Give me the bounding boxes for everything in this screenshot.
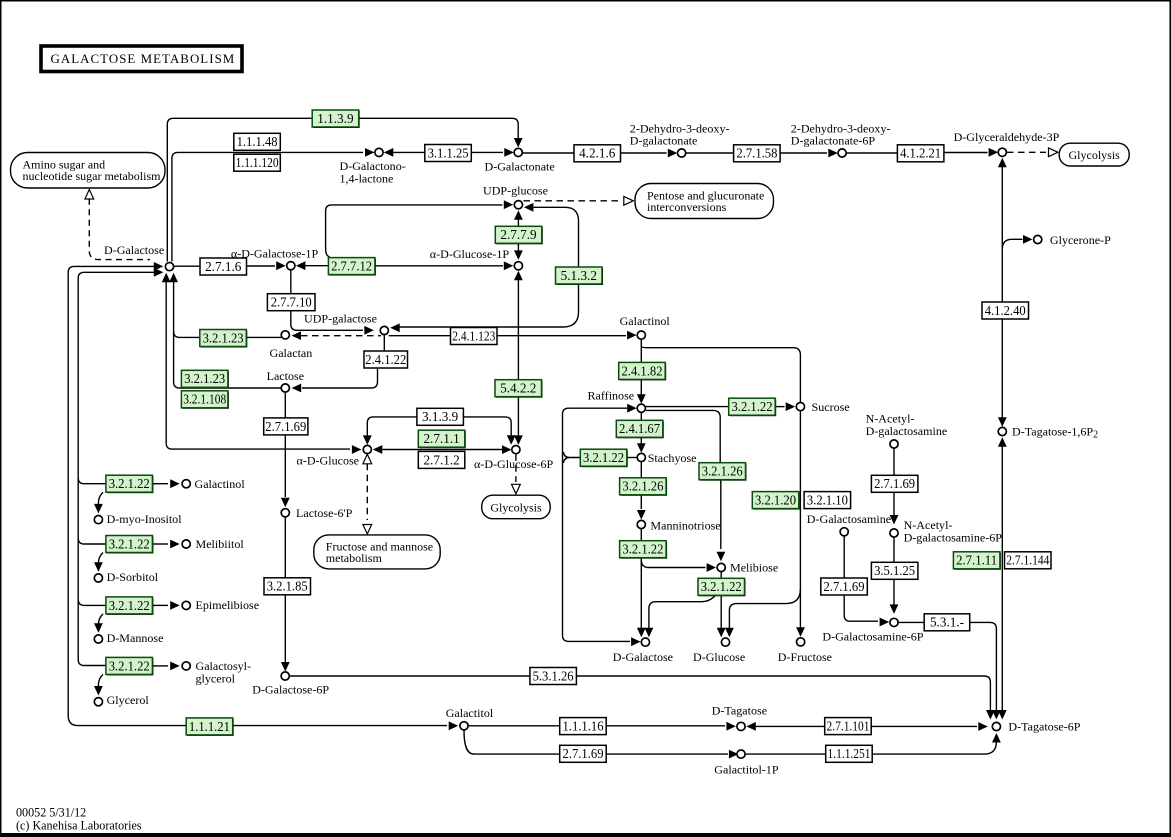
svg-text:4.2.1.6: 4.2.1.6 — [579, 146, 616, 161]
node N-Acetyl-D-galactosamine — [890, 440, 898, 448]
node Raffinose — [637, 404, 645, 412]
wire Lactose to Lactose-6P via 2.7.1.69 — [284, 392, 286, 418]
svg-text:3.2.1.22: 3.2.1.22 — [732, 399, 773, 414]
wire alpha-D-Glucose to alpha-D-Glucose-6P via 2.7.1.1/2.7.1.2 — [373, 445, 383, 454]
node D-Glucose — [721, 638, 729, 646]
node N-Acetyl-D-galactosamine-6P — [890, 529, 898, 537]
enzyme 3.2.1.10 — [804, 492, 851, 509]
node D-Fructose — [797, 638, 805, 646]
node Lactose-6P — [281, 509, 289, 517]
svg-text:Glycolysis: Glycolysis — [490, 500, 542, 514]
svg-text:D-Galactonate: D-Galactonate — [485, 160, 555, 174]
svg-text:1.1.1.16: 1.1.1.16 — [563, 719, 604, 734]
svg-text:Lactose: Lactose — [267, 369, 304, 383]
svg-text:Lactose-6'P: Lactose-6'P — [296, 506, 353, 520]
svg-text:2.7.1.69: 2.7.1.69 — [563, 746, 604, 761]
enzyme 3.5.1.25 — [871, 562, 918, 579]
enzyme 2.7.1.69 — [871, 475, 918, 492]
wire Sucrose to D-Fructose — [799, 411, 801, 629]
enzyme 3.2.1.23 (highlighted) — [182, 371, 229, 388]
wire Galactitol to D-Tagatose via 1.1.1.16 — [468, 725, 559, 727]
wire branch to 3.2.1.23 Galactan — [174, 331, 200, 337]
wire Lactose to D-Galactose via 3.2.1.23 — [169, 273, 178, 283]
wire dashed alpha-D-Glucose to fructose-mannose — [363, 454, 372, 464]
wire Galactitol/1.1.1.21 loop into D-Galactose — [154, 262, 164, 271]
wire UDP-galactose to Lactose via 2.4.1.22 — [383, 335, 385, 351]
svg-text:2.7.1.69: 2.7.1.69 — [874, 476, 915, 491]
svg-text:1.1.1.120: 1.1.1.120 — [236, 155, 279, 170]
svg-text:1,4-lactone: 1,4-lactone — [340, 171, 394, 185]
svg-text:5.4.2.2: 5.4.2.2 — [500, 381, 536, 396]
wire branch to Melibiose — [641, 560, 705, 568]
node Galactinol mid — [637, 331, 645, 339]
svg-text:2.7.7.9: 2.7.7.9 — [500, 227, 537, 242]
node D-Galactose — [165, 263, 173, 271]
enzyme 5.3.1.26 — [530, 668, 577, 685]
enzyme 2.7.7.9 (highlighted) — [496, 227, 543, 244]
svg-text:D-Tagatose: D-Tagatose — [712, 704, 767, 718]
svg-text:Manninotriose: Manninotriose — [650, 519, 720, 533]
wire 3.2.1.22 row2 drop — [98, 553, 103, 567]
enzyme 2.7.1.144 — [1005, 552, 1052, 569]
svg-text:D-Glyceraldehyde-3P: D-Glyceraldehyde-3P — [954, 130, 1060, 144]
svg-text:Glycerol: Glycerol — [107, 693, 150, 707]
wire Stachyose to bracket via 3.2.1.22 — [627, 457, 637, 459]
wire Raffinose to Sucrose via 3.2.1.22 — [646, 406, 729, 408]
wire 3.2.1.22 row4 to product — [152, 665, 168, 667]
enzyme 3.2.1.22 (highlighted) — [107, 598, 153, 615]
enzyme 2.7.1.101 — [825, 718, 872, 735]
svg-text:3.2.1.22: 3.2.1.22 — [583, 450, 624, 465]
svg-text:2.7.1.11: 2.7.1.11 — [956, 553, 997, 568]
svg-text:3.2.1.22: 3.2.1.22 — [109, 658, 150, 673]
svg-text:α-D-Galactose-1P: α-D-Galactose-1P — [231, 246, 319, 260]
enzyme 3.1.3.9 — [417, 408, 464, 425]
svg-text:(c) Kanehisa Laboratories: (c) Kanehisa Laboratories — [16, 818, 142, 832]
svg-text:3.2.1.108: 3.2.1.108 — [183, 392, 226, 407]
enzyme 3.2.1.22 (highlighted) — [107, 476, 153, 493]
enzyme 2.7.7.10 — [267, 294, 315, 311]
svg-text:D-galactonate: D-galactonate — [630, 133, 698, 147]
svg-text:3.2.1.26: 3.2.1.26 — [702, 464, 743, 479]
wire left bracket Raffinose to D-Galactose — [627, 404, 637, 413]
svg-text:1.1.3.9: 1.1.3.9 — [317, 111, 354, 126]
node D-Tagatose — [737, 722, 745, 730]
node D-Mannose — [94, 635, 102, 643]
svg-text:3.1.3.9: 3.1.3.9 — [422, 409, 459, 424]
node D-Galactosamine-6P — [890, 618, 898, 626]
wire branch Melibiose line to D-Galactose — [649, 594, 717, 630]
wire 3.2.1.22 row1 drop — [98, 492, 103, 507]
svg-text:1.1.1.251: 1.1.1.251 — [828, 746, 871, 761]
wire lactone to 3.1.1.25 to D-Galactonate — [384, 148, 394, 157]
pathway link Fructose and mannose metabolism — [314, 535, 440, 569]
enzyme 5.1.3.2 (highlighted) — [557, 268, 604, 285]
enzyme 3.2.1.85 — [264, 578, 311, 595]
node Galactosyl-glycerol — [182, 662, 190, 670]
svg-text:2.7.7.10: 2.7.7.10 — [271, 295, 312, 310]
svg-text:D-Mannose: D-Mannose — [107, 631, 164, 645]
svg-text:Epimelibiose: Epimelibiose — [196, 598, 260, 612]
wire dashed D-Galactose to Amino sugar metabolism — [85, 190, 94, 200]
svg-text:2.7.1.2: 2.7.1.2 — [423, 452, 459, 467]
svg-text:D-Fructose: D-Fructose — [778, 650, 832, 664]
wire 4.1.2.40 vertical D-Tagatose-1,6P2 to D-Glyceraldehyde-3P — [998, 158, 1007, 168]
svg-text:2.4.1.82: 2.4.1.82 — [622, 363, 663, 378]
wire dashed alpha-D-Glucose-6P to Glycolysis — [515, 454, 517, 482]
node 2-dehydro-3-deoxy-D-galactonate-6P — [838, 149, 846, 157]
node Melibiose — [717, 563, 725, 571]
svg-text:2.4.1.123: 2.4.1.123 — [452, 328, 495, 343]
svg-text:5.3.1.26: 5.3.1.26 — [533, 668, 574, 683]
enzyme 2.4.1.22 — [364, 351, 408, 368]
wire 3.1.3.9 loop — [363, 435, 372, 445]
svg-text:Raffinose: Raffinose — [588, 389, 635, 403]
svg-text:3.2.1.22: 3.2.1.22 — [109, 536, 150, 551]
enzyme 2.7.1.69 — [264, 418, 308, 435]
node Stachyose — [637, 453, 645, 461]
enzyme 5.3.1.- — [924, 614, 970, 631]
svg-text:Sucrose: Sucrose — [812, 400, 850, 414]
wire 3.2.1.22 row3 drop — [98, 614, 103, 627]
svg-text:3.2.1.10: 3.2.1.10 — [807, 493, 848, 508]
wire Galactitol to Galactitol-1P via 2.7.1.69 — [464, 730, 728, 754]
svg-text:3.2.1.22: 3.2.1.22 — [701, 579, 742, 594]
enzyme 1.1.1.21 (highlighted) — [187, 719, 234, 736]
enzyme 3.2.1.26 (highlighted) — [621, 479, 668, 496]
svg-text:1.1.1.21: 1.1.1.21 — [189, 719, 230, 734]
enzyme 4.2.1.6 — [574, 145, 621, 162]
pathway link Amino sugar and nucleotide sugar metabolism — [11, 153, 166, 189]
wire D-Galactose to alpha-D-Galactose-1P via 2.7.1.6 — [174, 265, 200, 267]
node UDP-galactose — [380, 326, 388, 334]
node D-myo-Inositol — [94, 516, 102, 524]
wire Manninotriose down via 3.2.1.22 to D-Galactose — [640, 529, 642, 541]
svg-text:3.2.1.23: 3.2.1.23 — [184, 371, 225, 386]
pathway link Pentose and glucuronate interconversions — [635, 184, 774, 219]
wire D-Tagatose-1,6P2 to D-Tagatose-6P — [998, 437, 1007, 447]
svg-text:3.2.1.22: 3.2.1.22 — [109, 598, 150, 613]
svg-text:3.2.1.23: 3.2.1.23 — [203, 330, 244, 345]
wire Sucrose branch to D-Glucose — [729, 589, 800, 630]
svg-text:2.4.1.22: 2.4.1.22 — [365, 352, 406, 367]
svg-text:2.7.1.58: 2.7.1.58 — [736, 146, 777, 161]
svg-text:2.7.1.6: 2.7.1.6 — [205, 259, 242, 274]
wire branch to 3.2.1.22 row3 — [78, 599, 106, 605]
wire Raffinose to Stachyose via 2.4.1.67 — [640, 413, 642, 421]
wire D-Galactose-6P to D-Tagatose-6P via 5.3.1.26 — [290, 675, 530, 677]
enzyme 3.2.1.26 (highlighted) — [700, 464, 747, 481]
svg-text:Stachyose: Stachyose — [648, 451, 697, 465]
wire 5.4.2.2 alpha-D-Glucose-1P to alpha-D-Glucose-6P — [514, 271, 523, 281]
wire branch to 3.2.1.22 row2 — [78, 538, 106, 544]
node UDP-glucose — [514, 201, 522, 209]
wire D-Galactose to alpha-D-Glucose row — [162, 273, 171, 283]
wire to D-Glyceraldehyde-3P — [846, 152, 897, 154]
pathway link Glycolysis (top) — [1059, 143, 1129, 166]
wire 1.1.3.9 loop D-Galactose to D-Galactonate — [167, 118, 518, 261]
title box GALACTOSE METABOLISM — [41, 46, 242, 72]
wire UDP-galactose to Galactinol via 2.4.1.123 — [389, 335, 451, 337]
svg-text:D-Galactose-6P: D-Galactose-6P — [252, 682, 329, 696]
svg-text:3.2.1.20: 3.2.1.20 — [755, 493, 796, 508]
node Galactitol-1P — [737, 750, 745, 758]
wire Lactose-6P to D-Galactose-6P via 3.2.1.85 — [284, 517, 286, 578]
wire 2.7.7.12 to alpha-D-Glucose-1P — [375, 265, 503, 267]
node 2-dehydro-3-deoxy-D-galactonate — [678, 149, 686, 157]
wire branch to 3.2.1.22 row1 — [78, 478, 106, 484]
svg-text:1.1.1.48: 1.1.1.48 — [237, 134, 278, 149]
svg-text:4.1.2.21: 4.1.2.21 — [900, 146, 941, 161]
svg-text:D-Galactosamine: D-Galactosamine — [807, 512, 891, 526]
svg-text:2.7.1.144: 2.7.1.144 — [1006, 553, 1049, 568]
wire Galactitol-1P via 1.1.1.251 to D-Tagatose-6P — [746, 753, 826, 755]
enzyme 2.7.1.11 (highlighted) — [954, 553, 1001, 570]
node D-Galactose bottom — [641, 638, 649, 646]
enzyme 2.4.1.123 — [451, 328, 498, 345]
wire UDP-glucose and alpha-D-Glucose-1P via 2.7.7.9 — [514, 210, 523, 220]
wire D-Galactonate to 2-dehydro-3-deoxy-D-galactonate — [523, 152, 575, 154]
enzyme 1.1.1.48 — [234, 133, 280, 150]
node alpha-D-Glucose-1P — [514, 262, 522, 270]
node Galactitol — [460, 722, 468, 730]
wire D-Galactosamine-6P via 5.3.1.- to D-Tagatose-6P — [898, 621, 924, 623]
enzyme 3.1.1.25 — [425, 145, 472, 162]
enzyme 1.1.1.120 — [234, 154, 280, 171]
svg-text:UDP-galactose: UDP-galactose — [304, 311, 377, 325]
enzyme 2.7.1.2 — [418, 451, 465, 468]
node alpha-D-Galactose-1P — [287, 262, 295, 270]
wire to D-galactonate-6P — [686, 152, 734, 154]
svg-text:2.7.7.12: 2.7.7.12 — [331, 259, 372, 274]
enzyme 2.7.1.6 — [200, 258, 247, 275]
svg-text:Galactitol-1P: Galactitol-1P — [714, 763, 779, 777]
svg-text:3.1.1.25: 3.1.1.25 — [428, 145, 469, 160]
svg-text:Glycolysis: Glycolysis — [1069, 148, 1121, 162]
wire alpha-D-Galactose-1P to UDP-galactose via 2.7.7.10 — [290, 270, 292, 294]
svg-text:D-Tagatose-1,6P2: D-Tagatose-1,6P2 — [1012, 425, 1098, 441]
svg-text:D-myo-Inositol: D-myo-Inositol — [107, 512, 183, 526]
svg-text:nucleotide sugar metabolism: nucleotide sugar metabolism — [23, 169, 162, 183]
wire 3.2.1.22 row1 to product — [152, 483, 168, 485]
pathway link Glycolysis (mid) — [482, 495, 551, 519]
wire dashed D-Glyceraldehyde-3P to Glycolysis — [1007, 151, 1046, 153]
wire alpha-D-Galactose-1P to 2.7.7.12 — [296, 261, 306, 270]
wire 3.2.1.22 row3 to product — [152, 604, 168, 606]
svg-text:D-Galactose: D-Galactose — [613, 650, 673, 664]
svg-text:D-galactosamine-6P: D-galactosamine-6P — [904, 531, 1003, 545]
svg-text:5.1.3.2: 5.1.3.2 — [561, 268, 597, 283]
enzyme 3.2.1.22 (highlighted) — [699, 579, 746, 596]
svg-text:Galactinol: Galactinol — [195, 477, 246, 491]
wire 3.2.1.22 row2 to product — [152, 543, 168, 545]
svg-text:UDP-glucose: UDP-glucose — [483, 183, 548, 197]
svg-text:GALACTOSE METABOLISM: GALACTOSE METABOLISM — [51, 52, 236, 66]
svg-text:α-D-Glucose: α-D-Glucose — [297, 453, 360, 467]
svg-text:glycerol: glycerol — [196, 671, 236, 685]
svg-text:3.2.1.26: 3.2.1.26 — [622, 479, 663, 494]
enzyme 1.1.3.9 (highlighted) — [313, 111, 360, 128]
wire 2.7.7.12 loop up to UDP-glucose — [326, 205, 503, 258]
enzyme 3.2.1.23 (highlighted) — [201, 331, 248, 348]
enzyme 2.7.1.58 — [734, 145, 781, 162]
enzyme 3.2.1.22 (highlighted) — [107, 658, 153, 675]
node Lactose — [281, 384, 289, 392]
svg-text:α-D-Glucose-6P: α-D-Glucose-6P — [474, 457, 554, 471]
node Glycerone-P — [1034, 235, 1042, 243]
wire D-Galactose to D-Galactono-1,4-lactone — [172, 152, 363, 261]
enzyme 3.2.1.108 (highlighted) — [182, 392, 229, 409]
wire Stachyose to Manninotriose via 3.2.1.26 — [640, 462, 642, 478]
node D-Tagatose-6P — [992, 722, 1000, 730]
node Glycerol — [94, 698, 102, 706]
node D-Glyceraldehyde-3P — [998, 148, 1006, 156]
svg-text:Galactinol: Galactinol — [620, 314, 671, 328]
node Manninotriose — [637, 520, 645, 528]
enzyme 4.1.2.21 — [897, 145, 944, 162]
enzyme 5.4.2.2 (highlighted) — [496, 381, 543, 398]
svg-text:D-Galactose: D-Galactose — [104, 243, 164, 257]
node D-Galactose-6P — [281, 672, 289, 680]
node Epimelibiose — [182, 601, 190, 609]
svg-text:2.7.1.69: 2.7.1.69 — [824, 579, 865, 594]
svg-text:2.7.1.69: 2.7.1.69 — [265, 419, 306, 434]
wire N-Acetyl-D-galactosamine to 6P via 2.7.1.69 — [893, 448, 895, 475]
svg-text:D-Glucose: D-Glucose — [693, 650, 745, 664]
svg-text:metabolism: metabolism — [326, 551, 383, 565]
svg-text:D-galactosamine: D-galactosamine — [866, 424, 948, 438]
enzyme 1.1.1.16 — [560, 718, 607, 735]
svg-text:D-galactonate-6P: D-galactonate-6P — [791, 133, 876, 147]
node D-Galactonate — [514, 148, 522, 156]
node Melibiitol — [182, 540, 190, 548]
enzyme 4.1.2.40 — [982, 302, 1029, 319]
enzyme 1.1.1.251 — [826, 745, 873, 762]
wire dashed UDP-glucose to pentose interconversions — [524, 200, 622, 202]
wire branch to Glycerone-P — [1002, 239, 1022, 249]
wire D-Galactosamine via 2.7.1.69 to D-Galactosamine-6P — [843, 536, 845, 578]
node D-Galactosamine — [840, 528, 848, 536]
svg-text:α-D-Glucose-1P: α-D-Glucose-1P — [430, 247, 510, 261]
node Galactinol left — [182, 480, 190, 488]
wire D-Tagatose via 2.7.1.101 to D-Tagatose-6P — [746, 722, 756, 731]
node Galactan — [281, 331, 289, 339]
svg-text:3.5.1.25: 3.5.1.25 — [874, 563, 915, 578]
svg-text:D-Galactosamine-6P: D-Galactosamine-6P — [822, 630, 923, 644]
enzyme 3.2.1.22 (highlighted) — [730, 399, 777, 416]
svg-text:Galactan: Galactan — [270, 346, 313, 360]
svg-text:interconversions: interconversions — [647, 200, 727, 214]
svg-text:Melibiitol: Melibiitol — [196, 537, 245, 551]
svg-text:3.2.1.22: 3.2.1.22 — [109, 476, 150, 491]
wire 3.2.1.22 row4 drop — [98, 674, 103, 689]
svg-text:2.7.1.101: 2.7.1.101 — [827, 719, 870, 734]
wire 3.2.1.22 column loop into D-Galactose — [154, 268, 164, 277]
svg-text:2.4.1.67: 2.4.1.67 — [619, 421, 660, 436]
enzyme 2.7.7.12 (highlighted) — [329, 259, 376, 276]
node alpha-D-Glucose-6P — [512, 446, 520, 454]
svg-text:D-Tagatose-6P: D-Tagatose-6P — [1008, 720, 1080, 734]
wire Melibiose down via 3.2.1.22 to D-Glucose — [720, 572, 722, 579]
enzyme 3.2.1.20 (highlighted) — [753, 493, 800, 510]
enzyme 2.7.1.69 — [560, 745, 607, 762]
svg-text:2.7.1.1: 2.7.1.1 — [423, 431, 459, 446]
enzyme 2.4.1.82 (highlighted) — [620, 363, 667, 380]
svg-text:D-Sorbitol: D-Sorbitol — [107, 570, 159, 584]
wire UDP-glucose to UDP-galactose via 5.1.3.2 — [524, 203, 534, 212]
enzyme 2.7.1.1 (highlighted) — [419, 431, 466, 448]
node alpha-D-Glucose — [363, 445, 371, 453]
node D-Sorbitol — [94, 574, 102, 582]
wire to D-Galactosamine-6P via 3.5.1.25 — [893, 537, 895, 562]
svg-text:4.1.2.40: 4.1.2.40 — [985, 303, 1026, 318]
enzyme 3.2.1.22 (highlighted) — [107, 537, 153, 554]
svg-text:3.2.1.85: 3.2.1.85 — [267, 579, 308, 594]
node Sucrose — [796, 403, 804, 411]
svg-text:Galactitol: Galactitol — [446, 706, 494, 720]
node D-Tagatose-1,6P2 — [998, 427, 1006, 435]
enzyme 3.2.1.22 (highlighted) — [621, 542, 668, 559]
enzyme 2.4.1.67 (highlighted) — [617, 421, 664, 438]
node D-Galactono-1,4-lactone — [375, 148, 383, 156]
enzyme 2.7.1.69 — [821, 578, 868, 595]
svg-text:Glycerone-P: Glycerone-P — [1050, 233, 1111, 247]
svg-text:5.3.1.-: 5.3.1.- — [930, 615, 964, 630]
wire Raffinose loop to Melibiose via 3.2.1.26 — [646, 410, 720, 463]
svg-text:Melibiose: Melibiose — [730, 561, 778, 575]
svg-text:3.2.1.22: 3.2.1.22 — [622, 542, 663, 557]
wire Galactinol loop to Sucrose/D-Fructose vertical — [641, 340, 800, 403]
enzyme 3.2.1.22 (highlighted) — [581, 450, 628, 467]
wire dashed UDP-galactose to Galactan — [292, 331, 302, 340]
wire Galactinol to Raffinose via 2.4.1.82 — [640, 352, 642, 363]
